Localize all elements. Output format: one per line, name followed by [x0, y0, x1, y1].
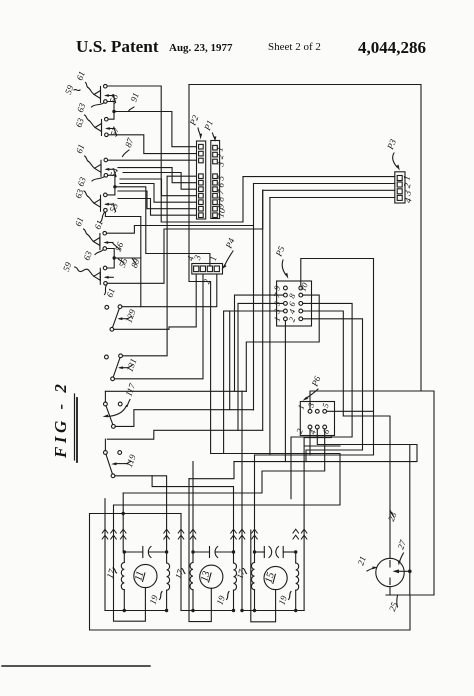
label 117 with leader	[123, 382, 137, 407]
wire 56 bottom to junction	[107, 249, 115, 259]
wire thermocouple 57 output to P2 pin 2	[108, 135, 196, 154]
label 119 with leader	[124, 453, 138, 469]
switch 119	[104, 439, 122, 477]
chevron arrows on motor feed wires	[102, 529, 307, 539]
wire frame top and right edge	[189, 85, 421, 392]
wire P2 pin11 stub	[118, 199, 197, 216]
wire 56/55 junction right	[114, 257, 141, 259]
motor 15 capacitor with curved plates	[255, 547, 296, 558]
motor 13 left coil 17	[190, 552, 193, 611]
P6 pin number labels	[294, 401, 332, 435]
wire switch 119 branch to motor 13 right coil	[152, 476, 233, 552]
motor 15 rotor return U wire	[251, 530, 276, 622]
label 25 with leader	[387, 596, 400, 613]
motor 13 left feed vertical	[180, 514, 182, 611]
FIG - 2 underline	[75, 394, 78, 462]
wire P5 pin6 to motor 11 outer	[291, 303, 352, 498]
wire P3 pin1 feed	[246, 295, 319, 391]
motor 15 bottom rail	[242, 610, 304, 612]
wire P3 pin2 feed from switch 117 wiper	[253, 226, 255, 411]
label 54 with leader	[108, 166, 121, 178]
thermocouple unit 58	[88, 84, 114, 103]
wire P2 pin8 stub	[120, 179, 197, 196]
label P6 with curved arrow	[303, 374, 323, 401]
motor 11 rotor return U wire	[114, 506, 146, 622]
label 63 (unit 54)	[75, 175, 104, 187]
label 87 with leader	[123, 136, 136, 156]
motor 13 coil feed vertical	[192, 462, 194, 552]
wire thermocouple 56 output to P3 riser	[107, 184, 254, 234]
wire 54 bottom to junction	[108, 175, 115, 187]
label 91 with leader	[128, 91, 140, 111]
motor 11 left coil 17	[121, 552, 124, 611]
motor 15 label	[264, 571, 277, 584]
wire frame jog to lower right	[386, 391, 434, 595]
connector P6	[300, 402, 334, 436]
motor 15 left feed vertical	[241, 391, 243, 611]
label 56 with leader	[113, 240, 126, 252]
wire 91 junction to P2 pin 1	[114, 112, 197, 147]
header text U.S. Patent	[76, 37, 426, 57]
label 61 (unit 58)	[74, 70, 88, 88]
wire switch 117 top rail	[105, 390, 246, 392]
motor 11 assembly	[134, 564, 157, 587]
motor 15 circle	[264, 566, 287, 589]
wire 58 bottom to junction	[107, 102, 114, 112]
motor 13 circle	[200, 565, 223, 588]
wire P2 pin6 stub	[118, 168, 197, 183]
label 19 (motor 15)	[276, 592, 291, 607]
switch 117 wiper arc with arrow	[103, 406, 127, 418]
wire lower distribution rail	[255, 454, 374, 456]
label 27 with leader	[395, 538, 408, 565]
junction dot 56/55	[113, 256, 116, 259]
label P4 with curved arrow	[222, 236, 237, 269]
wire P6 pin6 to motor 11 coil feed	[123, 429, 325, 493]
label P2 with arrow	[187, 113, 202, 139]
svg-text:4,044,286: 4,044,286	[358, 38, 426, 57]
motor 15 coil feed vertical	[254, 455, 256, 552]
connector P5	[277, 281, 312, 326]
label 57 with leader	[108, 125, 121, 137]
label 21 with leader	[355, 555, 378, 571]
motor 13 label	[199, 570, 212, 583]
junction dot at 21 arrow	[408, 570, 412, 574]
wire P5 pin1 drop	[284, 321, 286, 462]
component 21 arrow into center	[393, 569, 410, 573]
label 19 (motor 11)	[147, 592, 162, 606]
label 23 with leader	[386, 510, 399, 523]
motor 11 bottom rail	[105, 610, 167, 612]
label 17 (motor 13)	[173, 568, 186, 580]
label 89 with leader	[129, 257, 142, 269]
P3 pin number labels 4 3 2 1	[402, 175, 414, 205]
wire frame left edge bus	[114, 85, 341, 506]
motor 11 coil feed vertical with junction	[122, 493, 124, 552]
label 63 (unit 57)	[73, 115, 89, 129]
label P3 with curved arrow	[385, 137, 400, 170]
motor 13 bottom rail	[181, 610, 234, 612]
thermocouple unit 57	[89, 117, 115, 136]
wire P2 pin10 stub	[118, 191, 197, 209]
thermocouple unit 55	[88, 266, 114, 285]
wire thermocouple 55 output riser	[107, 190, 262, 283]
P5 pin number labels left 9 7 5 3 1	[271, 284, 282, 323]
footer rule	[2, 665, 150, 667]
switch 117	[104, 391, 123, 428]
switch 131 arrow	[118, 366, 128, 369]
component 21 motor-generator	[376, 558, 404, 586]
label P5 with curved arrow	[273, 244, 288, 279]
wire P5 pin2 to motor 13 return	[303, 319, 363, 462]
wire P3 pin4 feed	[270, 197, 395, 199]
label 61 (unit 54)	[74, 143, 89, 162]
wire P5 pin10 loop	[301, 259, 374, 456]
label 61 (unit 53) with squiggle	[92, 212, 104, 230]
label 61 (unit 56)	[73, 216, 88, 235]
junction dot 58/57	[112, 110, 115, 113]
wire bottom loop	[90, 514, 411, 631]
junction dots motor 13	[191, 550, 194, 553]
label 63 (unit 53)	[73, 187, 88, 199]
label 58 with leader	[107, 92, 120, 104]
wire P6 pin5 right	[327, 410, 374, 412]
wire switch 119 top rail	[107, 430, 262, 439]
wire junction to 55 top	[107, 258, 114, 268]
thermocouple unit 54	[89, 158, 115, 177]
svg-text:Aug. 23, 1977: Aug. 23, 1977	[169, 42, 233, 54]
connector P3	[395, 172, 405, 203]
P5 pin number labels right 10 8 6 4 2	[286, 281, 310, 324]
motor 15 extra right vertical	[303, 438, 305, 611]
label 53 with leader	[107, 201, 120, 213]
wire thermocouple 53 output down	[105, 212, 140, 307]
wire 54/53 junction to P4 pin 2	[115, 187, 210, 266]
motor 11 circle	[134, 564, 157, 587]
wire P3 pin3 feed	[262, 190, 264, 430]
motor 13 assembly	[200, 565, 223, 588]
motor 11 label	[133, 570, 146, 582]
switch 129	[105, 305, 122, 331]
P4 pin labels 4 3 2 1	[185, 254, 219, 285]
wire switch 131 bottom to P4 pin3	[114, 274, 203, 379]
P1 pin number labels 3 2 1	[214, 146, 226, 169]
wire thermocouple 58 output to P3 riser	[107, 86, 243, 222]
label 17 (motor 15)	[234, 568, 247, 580]
wire switch 129 bottom to P4 pin4	[114, 274, 196, 329]
wire thermocouple 54 output to P2 pin 3	[108, 159, 197, 161]
wire P5 pin4 to component 21 top	[303, 311, 344, 416]
switch 131	[105, 354, 123, 381]
wire switch 119 bottom to motor 11 right coil	[115, 476, 167, 552]
wire junction to 53 top	[107, 187, 115, 195]
svg-text:Sheet 2 of 2: Sheet 2 of 2	[268, 41, 321, 53]
wire junction to 57 top	[108, 112, 114, 120]
wire P5 pin3 drop	[230, 311, 284, 410]
thermocouple unit 53	[88, 193, 114, 212]
wire switch 117 wiper out	[115, 410, 253, 427]
label 131 with leader	[124, 357, 138, 373]
wire 21 bottom stub	[389, 587, 391, 595]
switch 119 arrow	[111, 462, 127, 465]
svg-text:U.S. Patent: U.S. Patent	[76, 37, 159, 56]
wire P5 pin5 drop	[238, 303, 284, 430]
wire P2 pin5 from switch 131	[123, 176, 197, 356]
label 59 (unit 55)	[61, 260, 88, 272]
label 129 with leader	[123, 308, 137, 325]
motor 15 assembly	[264, 566, 287, 589]
junction dots motor 15	[253, 550, 256, 553]
wire P5 pin7 drop	[235, 295, 284, 391]
motor 13 right coil	[234, 552, 237, 611]
label 19 (motor 13)	[214, 592, 229, 607]
motor 13 capacitor	[193, 547, 234, 558]
motor 11 right coil	[167, 552, 170, 611]
wire switch 129 top to P4 pin1	[122, 274, 217, 307]
label 61 (unit 55) with squiggle	[104, 285, 116, 299]
connector P4	[192, 264, 223, 275]
label P1 with arrow	[202, 119, 217, 142]
motor 15 left coil 17	[251, 552, 254, 611]
junction dots motor 11	[123, 550, 126, 553]
wire motor 15 right extra feed	[304, 436, 331, 438]
label 63 (unit 58)	[75, 101, 104, 113]
wire 21 top feed	[343, 416, 390, 558]
junction dot 54/53	[113, 185, 116, 188]
label 59 (unit 58)	[63, 83, 80, 95]
motor 13 rotor return U wire	[189, 479, 211, 622]
motor 11 left feed vertical	[104, 499, 106, 611]
connector P1	[211, 141, 220, 219]
P1 pin number labels 10 9 8 7 6 5	[215, 174, 227, 218]
label 63 (unit 56)	[81, 249, 103, 261]
FIG - 2 label	[51, 381, 70, 459]
svg-text:FIG - 2: FIG - 2	[51, 381, 70, 459]
wire P6 pin1 up and over	[310, 391, 421, 409]
thermocouple unit 56	[88, 231, 113, 250]
motor 15 right coil	[296, 552, 299, 611]
wire P6 pin4 to component 21 arrow	[234, 429, 417, 462]
label 55 with leader	[117, 256, 130, 268]
switch 129 arrow	[118, 317, 128, 320]
wire P2 pin7 stub	[123, 173, 197, 190]
wire P2 pin9 stub	[120, 184, 197, 203]
motor 11 capacitor	[124, 547, 166, 558]
connector P2	[197, 141, 206, 219]
label 17 (motor 11)	[104, 567, 117, 579]
wire P6 pin2 down	[309, 429, 311, 455]
wire left loop feeder	[90, 513, 182, 515]
